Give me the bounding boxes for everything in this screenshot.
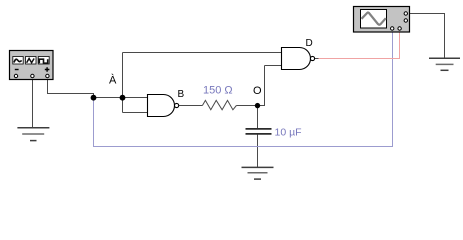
svg-text:150 Ω: 150 Ω [203, 85, 233, 97]
svg-text:D: D [306, 38, 313, 49]
svg-text:10 µF: 10 µF [275, 127, 302, 139]
svg-text:O: O [253, 85, 262, 97]
svg-text:À: À [109, 74, 117, 87]
svg-text:B: B [178, 89, 185, 100]
